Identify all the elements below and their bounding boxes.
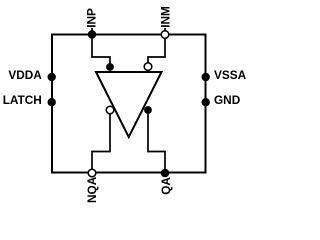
svg-text:INM: INM bbox=[158, 6, 172, 28]
node LATCH bbox=[48, 98, 56, 106]
comparator U1 bbox=[96, 72, 162, 137]
node VDDA bbox=[48, 73, 56, 81]
node INM bbox=[161, 31, 169, 39]
wire INM to comparator bbox=[148, 38, 165, 63]
node VSSA bbox=[202, 73, 210, 81]
node inverting output bbox=[106, 106, 114, 114]
node INP bbox=[88, 30, 96, 38]
wire NQA bbox=[92, 114, 110, 169]
wire INP to comparator bbox=[92, 35, 110, 65]
svg-text:INP: INP bbox=[85, 8, 99, 28]
wire INP stub bbox=[91, 28, 93, 35]
wire INM stub bbox=[164, 28, 166, 31]
svg-text:VDDA: VDDA bbox=[8, 68, 42, 82]
package outline bbox=[52, 35, 206, 173]
node GND bbox=[202, 98, 210, 106]
svg-text:VSSA: VSSA bbox=[214, 68, 247, 82]
svg-text:LATCH: LATCH bbox=[3, 93, 42, 107]
node QA bbox=[161, 169, 170, 178]
wire QA bbox=[148, 114, 165, 169]
node NQA bbox=[88, 169, 96, 177]
svg-text:QA: QA bbox=[159, 177, 173, 195]
node inverting input bbox=[144, 63, 152, 71]
node noninverting output bbox=[144, 106, 152, 114]
node noninverting input bbox=[106, 63, 114, 71]
svg-text:NQA: NQA bbox=[85, 176, 99, 203]
svg-text:GND: GND bbox=[214, 93, 241, 107]
